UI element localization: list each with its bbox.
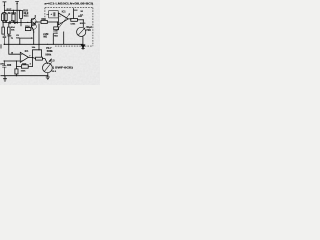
op-amp IC1a <box>58 13 68 25</box>
wire <box>20 18 22 22</box>
IC dashed box <box>45 8 93 47</box>
wiper loop <box>33 50 42 58</box>
svg-text:R17: R17 <box>7 8 12 12</box>
node A <box>4 5 5 6</box>
svg-text:R28: R28 <box>7 65 12 67</box>
wire <box>74 8 78 18</box>
wire <box>21 22 32 29</box>
wire <box>82 37 84 45</box>
svg-text:kΩ1: kΩ1 <box>24 13 30 17</box>
wire <box>16 61 21 67</box>
potentiometer P07 <box>36 57 43 60</box>
capacitor under opamp <box>56 22 58 27</box>
wire <box>4 10 21 14</box>
svg-text:MΩ: MΩ <box>54 36 58 38</box>
box C1 <box>49 11 59 18</box>
resistor R25 <box>20 10 23 18</box>
wire <box>38 44 40 50</box>
arrow J2.3 <box>49 59 52 62</box>
resistor R21 <box>71 18 78 21</box>
resistor R30 <box>15 69 18 74</box>
wire feedback <box>28 58 32 67</box>
svg-text:a=IC1·LM10CLN+DIL08·BC5: a=IC1·LM10CLN+DIL08·BC5 <box>44 2 93 6</box>
supply bar V1 <box>3 2 7 11</box>
resistor R18 <box>2 27 5 34</box>
resistor R17b <box>5 14 7 21</box>
resistor R19t <box>12 14 15 21</box>
resistor R19 <box>8 27 11 34</box>
resistor R17a <box>2 14 4 21</box>
bus wire <box>3 21 32 23</box>
wire <box>3 22 9 44</box>
wire <box>38 24 40 45</box>
long wire <box>4 43 83 45</box>
svg-text:10: 10 <box>11 53 13 55</box>
svg-text:50μA: 50μA <box>86 26 92 29</box>
wire <box>0 44 2 48</box>
svg-text:49.9Ω1: 49.9Ω1 <box>8 11 17 15</box>
svg-text:120k: 120k <box>70 24 76 26</box>
labels <box>0 2 93 74</box>
node C <box>33 31 34 32</box>
supply bar V2 <box>15 1 19 22</box>
capacitor C33 <box>2 61 6 75</box>
svg-text:220n: 220n <box>0 63 5 65</box>
svg-text:MΩ: MΩ <box>43 36 47 38</box>
wire <box>15 67 17 76</box>
node B <box>17 10 18 11</box>
wire <box>53 32 63 45</box>
svg-text:R24: R24 <box>25 25 30 28</box>
mark <box>91 3 94 5</box>
svg-text:S02.1: S02.1 <box>80 23 86 25</box>
transistor T1 <box>31 18 33 27</box>
meter M2 <box>43 63 53 73</box>
op-amp IC1b <box>20 52 28 62</box>
diagonal arrow <box>57 14 70 30</box>
transistor T2 <box>32 25 35 44</box>
bottom rail <box>1 75 48 77</box>
capacitor C32 <box>3 34 7 44</box>
wire output IC1a <box>68 18 71 21</box>
wire <box>35 22 41 25</box>
ground <box>46 77 50 80</box>
loop wire with arrow <box>20 38 33 44</box>
svg-text:500k: 500k <box>45 53 51 57</box>
wire <box>3 11 6 22</box>
svg-text:IC1: IC1 <box>62 10 66 13</box>
wire output <box>28 58 35 59</box>
diode D2 <box>14 22 17 24</box>
wire <box>47 73 49 77</box>
resistor R24 <box>25 28 30 31</box>
svg-text:10n: 10n <box>16 37 20 39</box>
node D <box>36 21 37 22</box>
junction dots <box>3 22 29 23</box>
wire to meter <box>82 20 84 28</box>
ground <box>3 76 7 82</box>
svg-text:( SWF-9CB): ( SWF-9CB) <box>53 66 73 70</box>
svg-text:R33: R33 <box>41 19 46 21</box>
wire inverting input <box>4 60 21 62</box>
meter M1 <box>77 27 86 36</box>
svg-text:P0D: P0D <box>86 30 91 32</box>
diode D1 <box>81 45 85 48</box>
resistor R29 <box>21 65 28 68</box>
resistor R33 <box>41 20 47 23</box>
svg-text:100k: 100k <box>21 70 27 72</box>
capacitor C31 <box>9 21 10 24</box>
svg-text:6: 6 <box>30 63 31 65</box>
wire to meter <box>42 59 47 64</box>
svg-text:J2.3: J2.3 <box>50 59 55 62</box>
wire <box>47 21 58 23</box>
wire to op-amp input <box>9 44 20 54</box>
